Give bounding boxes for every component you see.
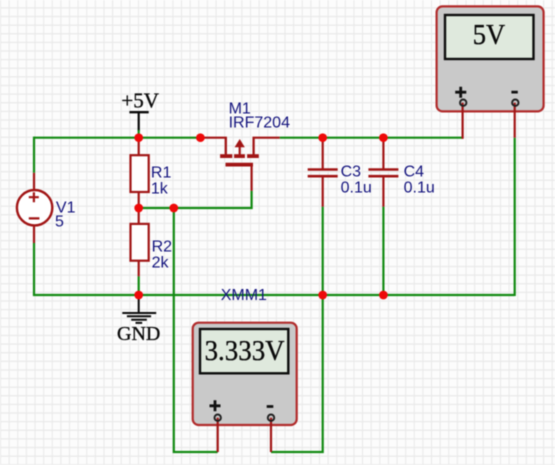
wire M1 source lead red <box>203 137 227 139</box>
wire C4 top lead red <box>382 138 384 169</box>
node +5V junction <box>134 133 143 142</box>
wire top net green right <box>280 137 463 139</box>
svg-text:R2: R2 <box>152 239 173 256</box>
wire M1 gate lead red <box>251 166 253 191</box>
transistor M1 (P-MOSFET IRF7204) <box>220 101 290 165</box>
wire divider node green horizontal <box>139 191 252 208</box>
wire XMM1 minus stub red <box>270 418 272 452</box>
wire V1 bottom lead red <box>33 225 35 243</box>
voltage source V1 <box>17 190 76 231</box>
svg-text:3.333V: 3.333V <box>205 335 285 367</box>
wire C3 top lead red <box>322 138 324 169</box>
wire +5V stub black <box>138 113 140 132</box>
svg-text:XMM1: XMM1 <box>221 287 267 304</box>
node divider left junction <box>134 204 143 213</box>
svg-text:GND: GND <box>117 323 160 345</box>
wire M1 drain lead red <box>253 137 280 139</box>
resistor R2 <box>131 224 173 271</box>
wire left vertical green bottom <box>33 243 35 295</box>
svg-text:R1: R1 <box>151 165 172 182</box>
wire XMM1 plus stub red <box>217 418 219 452</box>
wire C3 bottom lead red <box>322 177 324 207</box>
capacitor C4 <box>368 164 434 197</box>
ground symbol GND <box>117 295 160 345</box>
svg-text:0.1u: 0.1u <box>341 180 372 197</box>
resistor R1 <box>131 155 172 197</box>
junction dots <box>134 133 387 299</box>
wire R1 bottom to R2 top lead red <box>138 192 140 224</box>
svg-text:0.1u: 0.1u <box>404 180 435 197</box>
power symbol +5V <box>121 89 159 113</box>
node M1 source junction <box>196 133 205 142</box>
svg-text:1k: 1k <box>151 181 169 198</box>
wire C3 bottom green to rail <box>322 207 324 295</box>
wire R2 bottom lead red <box>138 260 140 276</box>
wire XMM2 plus stub red <box>462 103 464 139</box>
node divider right junction <box>169 204 178 213</box>
svg-text:+5V: +5V <box>121 89 159 113</box>
wire left vertical green top <box>33 137 35 173</box>
svg-text:5: 5 <box>55 214 64 231</box>
wire XMM2 minus green down to rail <box>514 138 516 296</box>
svg-text:C4: C4 <box>404 164 425 181</box>
wire divider to XMM1 plus green <box>174 208 218 452</box>
node ground rail junction <box>134 291 143 300</box>
wire green to ground rail <box>138 276 140 295</box>
wire C4 bottom lead red <box>382 177 384 207</box>
node C3 top junction <box>318 133 327 142</box>
wire C4 bottom green to rail <box>382 207 384 295</box>
svg-text:C3: C3 <box>341 164 362 181</box>
node C4 top junction <box>379 133 388 142</box>
wire XMM2 minus stub red <box>514 103 516 138</box>
capacitor C3 <box>308 164 372 197</box>
svg-text:5V: 5V <box>473 19 506 51</box>
wire XMM1 minus green <box>271 295 323 452</box>
node C3 bottom junction <box>318 291 327 300</box>
multimeter XMM2 body <box>437 6 544 138</box>
node C4 bottom junction <box>379 291 388 300</box>
wire V1 top lead red <box>33 173 35 191</box>
wire R1 top lead red <box>138 138 140 156</box>
svg-text:2k: 2k <box>152 254 170 271</box>
multimeter XMM1 body <box>193 323 297 452</box>
svg-text:IRF7204: IRF7204 <box>229 115 290 132</box>
wire green stub below +5V <box>138 130 140 138</box>
wire top net green left <box>34 137 203 139</box>
wire ground rail green <box>33 294 515 296</box>
